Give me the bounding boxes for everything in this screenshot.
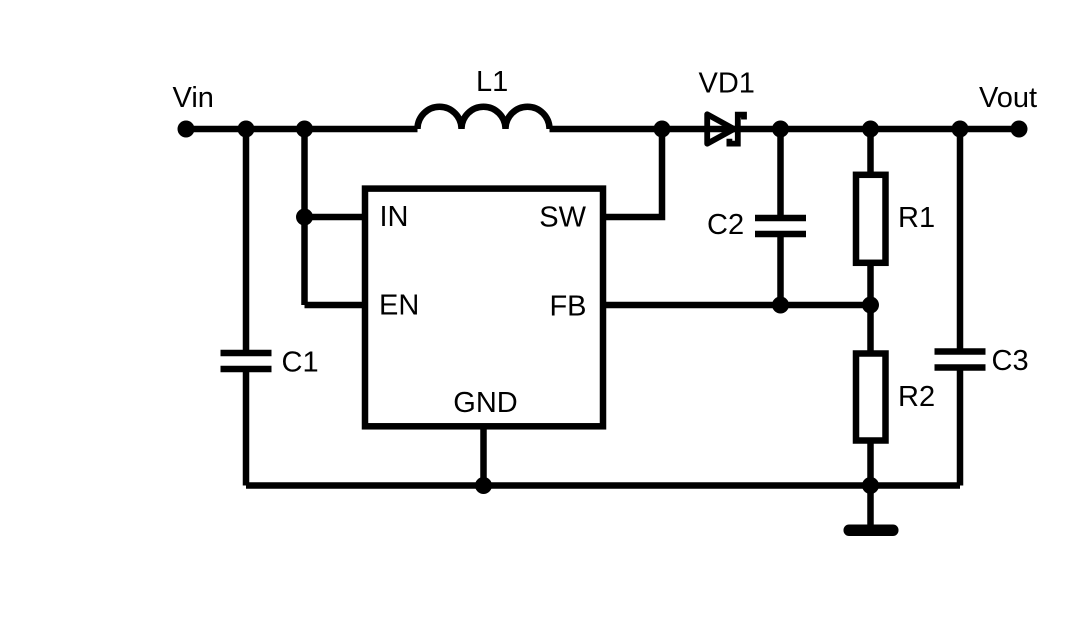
svg-text:SW: SW [539,202,586,234]
wire GND pin [480,426,487,486]
junction IN [296,209,313,226]
svg-text:C3: C3 [992,345,1029,377]
wire R2 branch lower [867,438,874,486]
ground [844,525,899,537]
terminal dot Vin [178,121,195,138]
resistor R1 [856,175,886,263]
inductor L1 [418,107,550,129]
svg-text:Vin: Vin [173,82,214,114]
diode VD1 triangle [707,114,734,143]
junction SW top [654,121,671,138]
wire C3 branch upper [957,129,964,352]
junction ground rail [862,477,879,494]
svg-text:C1: C1 [282,347,319,379]
svg-text:R2: R2 [898,381,935,413]
wire bottom rail [246,482,960,489]
svg-text:R1: R1 [898,202,935,234]
junction C1 top [238,121,255,138]
wire R2 branch upper [867,305,874,356]
wire R1 branch upper [867,129,874,177]
svg-text:Vout: Vout [979,82,1037,114]
junction R1 top [862,121,879,138]
junction FB divider [862,297,879,314]
wire ground stub [867,486,874,527]
wire EN pin [305,302,366,309]
capacitor C3 [935,352,986,368]
terminal dot Vout [1011,121,1028,138]
junction C2 top [772,121,789,138]
svg-text:VD1: VD1 [699,68,755,100]
svg-text:L1: L1 [476,66,508,98]
wire R1 branch lower [867,261,874,305]
junction C2 bottom [772,297,789,314]
wire C2 branch upper [777,129,784,218]
svg-text:EN: EN [379,290,419,322]
junction C3 top [952,121,969,138]
wire C1 branch lower [243,369,250,486]
wire IN pin [305,214,366,221]
wire FB pin [603,302,871,309]
svg-text:GND: GND [453,387,517,419]
capacitor C1 [221,353,272,369]
junction riser top [296,121,313,138]
wire top rail left segment [186,126,418,133]
svg-text:IN: IN [380,201,409,233]
wire top rail right segment [550,126,1020,133]
svg-text:C2: C2 [707,209,744,241]
wire IN/EN riser [301,129,308,305]
op-amp U1 box [365,189,603,427]
capacitor C2 [755,218,806,234]
resistor R2 [856,354,886,441]
svg-text:FB: FB [549,291,586,323]
wire C3 branch lower [957,368,964,486]
diode VD1 schottky cathode [729,115,744,144]
wire C2 branch lower [777,234,784,305]
junction GND bottom [475,477,492,494]
wire SW pin [603,129,662,217]
wire C1 branch upper [243,129,250,353]
